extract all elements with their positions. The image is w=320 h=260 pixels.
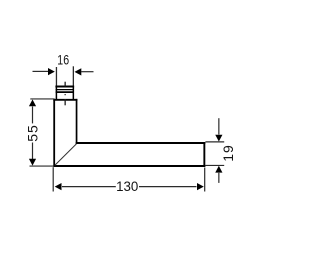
svg-text:130: 130: [116, 178, 138, 194]
svg-text:19: 19: [220, 144, 236, 161]
svg-text:16: 16: [57, 52, 69, 68]
svg-text:55: 55: [24, 124, 40, 141]
